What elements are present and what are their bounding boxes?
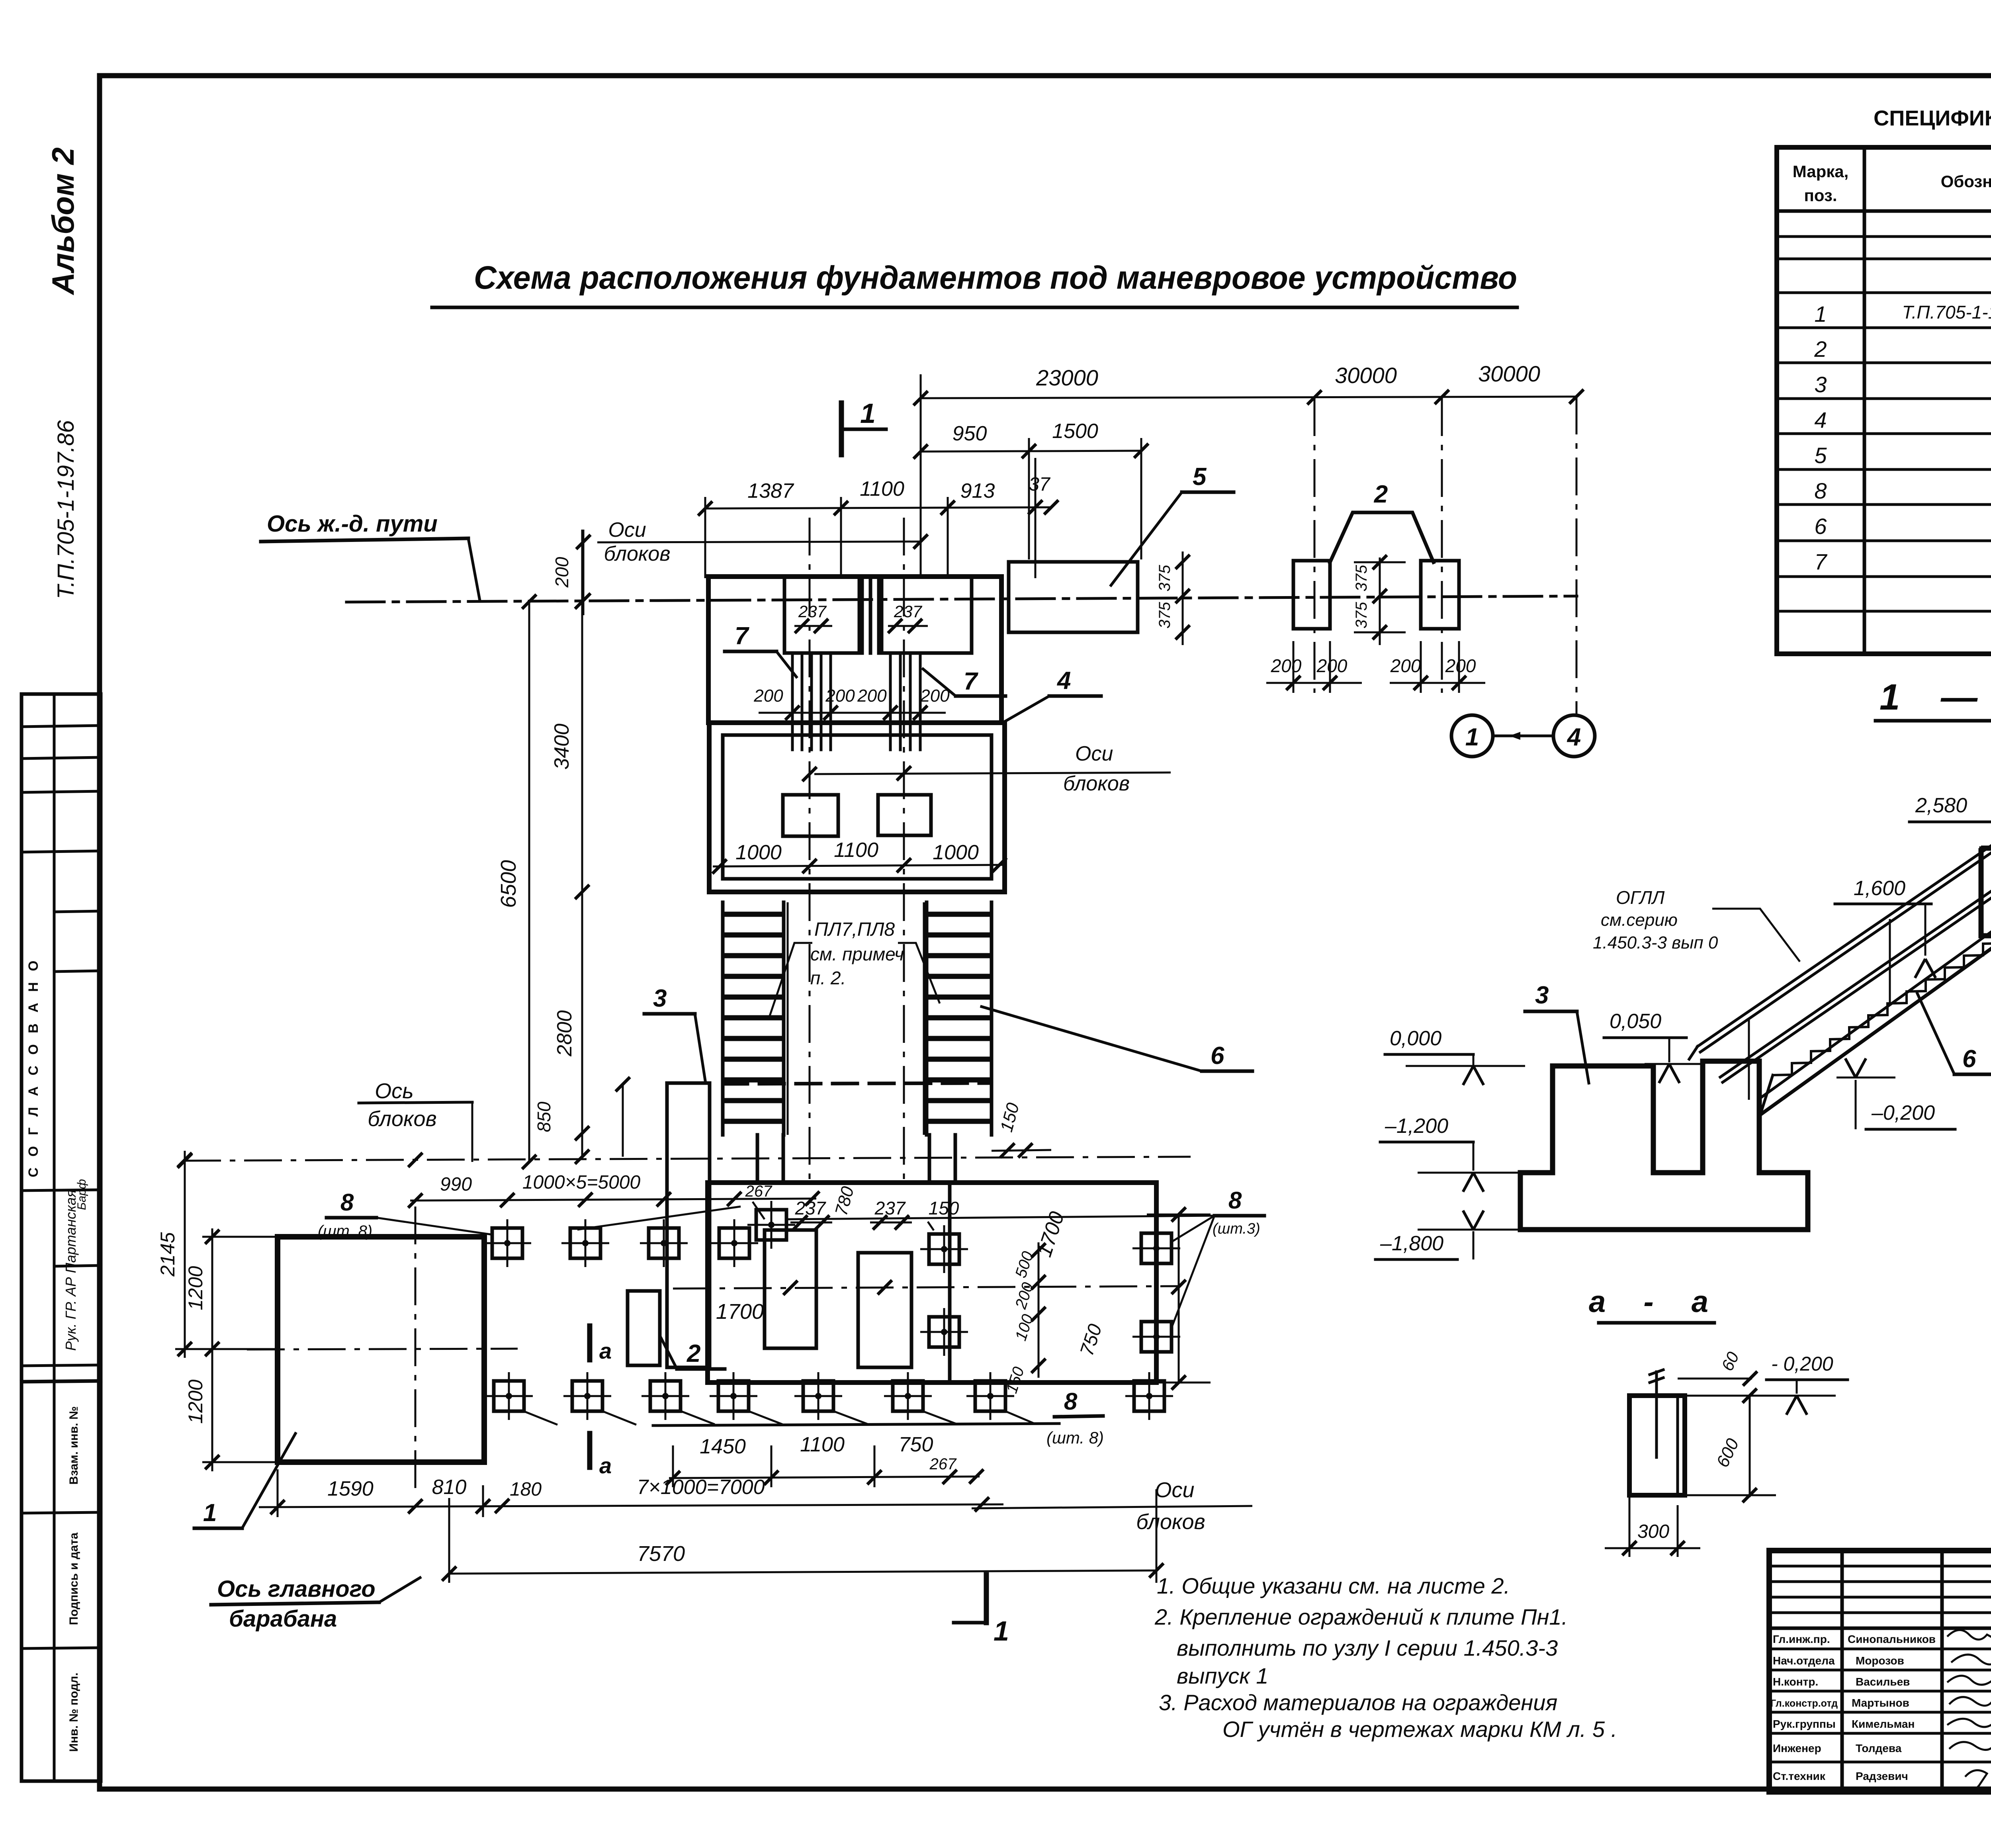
section foundation pos4 profile	[1981, 848, 1991, 978]
label 7 left	[725, 622, 796, 677]
pos1 axes	[247, 1207, 518, 1493]
stair railing	[1689, 846, 1991, 1100]
svg-text:375: 375	[1156, 565, 1173, 591]
svg-text:200: 200	[1271, 655, 1302, 676]
svg-text:Альбом 2: Альбом 2	[45, 147, 80, 295]
dims 1200 1200	[175, 1228, 279, 1471]
pos3 tall rectangle plan	[667, 1083, 710, 1367]
svg-text:–1,800: –1,800	[1380, 1232, 1443, 1255]
level 0.000	[1385, 1027, 1525, 1085]
svg-text:200: 200	[1316, 655, 1348, 676]
svg-text:300: 300	[1637, 1521, 1669, 1542]
svg-text:Рук.группы: Рук.группы	[1773, 1718, 1836, 1730]
svg-text:990: 990	[440, 1174, 472, 1195]
dims 200 under channels	[753, 686, 950, 720]
svg-text:0,000: 0,000	[1390, 1027, 1441, 1050]
svg-text:7570: 7570	[637, 1542, 685, 1566]
dim row 1387 1100 913 37	[698, 458, 1058, 578]
level -1.200	[1380, 1115, 1518, 1192]
svg-text:3400: 3400	[550, 724, 573, 770]
upper block notch 1	[784, 577, 859, 653]
svg-text:3: 3	[653, 985, 667, 1012]
label 1	[194, 1433, 295, 1528]
svg-text:0,050: 0,050	[1610, 1010, 1661, 1033]
blocks axes label bottom right	[972, 1478, 1252, 1534]
level 0.050	[1604, 1010, 1704, 1083]
svg-text:Гл.констр.отд: Гл.констр.отд	[1770, 1698, 1838, 1709]
svg-text:см. примеч: см. примеч	[810, 944, 904, 964]
left margin attachment table	[22, 694, 101, 1781]
vertical block axes dashdot	[810, 518, 904, 1183]
main title	[432, 260, 1517, 307]
section a-a dim 60	[1678, 1349, 1757, 1386]
svg-text:23000: 23000	[1036, 365, 1098, 390]
specification table heading	[1874, 106, 1991, 130]
svg-text:750: 750	[899, 1433, 933, 1456]
upper block notch 2	[882, 577, 972, 653]
svg-text:3: 3	[1535, 982, 1549, 1009]
middle block inner rect	[723, 735, 992, 879]
blocks axes label upper	[597, 518, 928, 565]
svg-text:4: 4	[1056, 667, 1071, 694]
svg-text:Васильев: Васильев	[1856, 1676, 1910, 1688]
pit dashed line	[723, 1083, 992, 1084]
interior axis horizontal	[673, 1280, 1179, 1324]
svg-text:200: 200	[1390, 655, 1421, 676]
svg-text:Т.П.705-1-197.86лист 29: Т.П.705-1-197.86лист 29	[1902, 302, 1991, 323]
label 5	[1111, 463, 1234, 585]
dim 237 237 780 lower	[790, 1184, 912, 1230]
svg-text:200: 200	[753, 686, 783, 706]
upper block middle strips	[862, 577, 879, 653]
svg-text:Рук. ГР. АР Партанская: Рук. ГР. АР Партанская	[63, 1190, 79, 1351]
svg-text:7: 7	[1814, 549, 1827, 574]
svg-text:3: 3	[1814, 372, 1827, 397]
svg-text:1387: 1387	[747, 479, 794, 503]
svg-text:1000: 1000	[933, 841, 979, 864]
svg-text:Т.П.705-1-197.86: Т.П.705-1-197.86	[53, 420, 79, 599]
blocks axes label lower left	[359, 1079, 472, 1162]
notes	[1154, 1573, 1617, 1742]
big interior rect B	[858, 1253, 911, 1367]
svg-text:2: 2	[686, 1340, 700, 1367]
svg-text:Морозов: Морозов	[1856, 1654, 1904, 1667]
dim 375 375 at pos2	[1353, 555, 1406, 645]
svg-text:С О Г Л А С О В А Н О: С О Г Л А С О В А Н О	[26, 957, 41, 1177]
svg-text:5: 5	[1814, 443, 1827, 468]
svg-text:267: 267	[745, 1183, 773, 1200]
svg-text:Оси: Оси	[608, 518, 646, 542]
svg-text:–0,200: –0,200	[1871, 1101, 1935, 1124]
svg-text:ПЛ7,ПЛ8: ПЛ7,ПЛ8	[814, 919, 895, 940]
level -0.200 section	[1836, 1058, 1955, 1129]
svg-text:а: а	[599, 1453, 612, 1478]
railway axis line	[346, 596, 1577, 602]
svg-text:1: 1	[994, 1615, 1009, 1647]
pos2 left rectangle	[1293, 561, 1330, 629]
vertical axes dashdot right group	[1314, 397, 1576, 715]
svg-text:1700: 1700	[716, 1300, 764, 1324]
specification table grid	[1777, 147, 1991, 654]
svg-text:а: а	[599, 1338, 612, 1363]
svg-text:267: 267	[929, 1455, 957, 1473]
channels pos7 group B	[890, 653, 920, 750]
svg-text:1: 1	[1465, 724, 1479, 751]
lower main block outline	[708, 1183, 1156, 1383]
footings bottom row	[485, 1372, 1173, 1420]
top dim row 23000 30000 30000	[913, 361, 1584, 578]
svg-text:(шт. 8): (шт. 8)	[318, 1222, 372, 1240]
svg-text:выполнить по узлу I серии 1: выполнить по узлу I серии 1.450.3-3	[1177, 1635, 1558, 1660]
pos2 right rectangle	[1421, 561, 1459, 629]
svg-text:6: 6	[1211, 1042, 1224, 1070]
svg-text:7: 7	[735, 622, 749, 650]
dim 150 right of hatch	[992, 1101, 1051, 1158]
footing offset	[747, 1201, 795, 1249]
middle block hole left	[783, 795, 838, 836]
section a-a channel rect	[1629, 1396, 1685, 1495]
svg-text:Обозначение: Обозначение	[1941, 172, 1991, 191]
dim 237 upper right	[888, 602, 928, 633]
footings right edge pair	[1132, 1224, 1180, 1361]
title block frame	[1769, 1551, 1991, 1792]
svg-text:30000: 30000	[1478, 361, 1540, 386]
svg-text:1100: 1100	[834, 839, 878, 862]
svg-text:блоков: блоков	[1063, 772, 1130, 795]
svg-text:Оси: Оси	[1155, 1478, 1194, 1502]
svg-text:1200: 1200	[184, 1379, 207, 1424]
dim row 950 1500	[913, 420, 1148, 559]
datum circles 1 and 4	[1451, 715, 1595, 757]
right dim chain 100 200 500 150	[1003, 1242, 1046, 1396]
svg-text:СПЕЦИФИКАЦИЯ ЭЛЕМЕНТОВ К СХЕМЕ: СПЕЦИФИКАЦИЯ ЭЛЕМЕНТОВ К СХЕМЕ РАСПОЛОЖЕ…	[1874, 106, 1991, 130]
dim row 1450 1100 750 267	[666, 1433, 984, 1487]
section a-a dim 300	[1605, 1445, 1700, 1557]
left margin rotated captions	[26, 957, 88, 1752]
footings mid pair	[920, 1225, 968, 1356]
svg-text:ОГ учтён в чертежах ма: ОГ учтён в чертежах марки КМ л. 5 .	[1222, 1717, 1617, 1742]
svg-text:4: 4	[1814, 407, 1827, 432]
svg-text:237: 237	[798, 602, 827, 621]
svg-text:2,580: 2,580	[1915, 794, 1967, 817]
svg-text:Синопальников: Синопальников	[1848, 1633, 1936, 1645]
svg-text:1. Общие указани см. на ли: 1. Общие указани см. на листе 2.	[1157, 1573, 1510, 1598]
bottom dim row 1590 810 180 7x1000	[259, 1469, 1003, 1517]
svg-text:1: 1	[860, 398, 876, 429]
svg-text:Мартынов: Мартынов	[1852, 1697, 1909, 1709]
middle block hole right	[878, 795, 931, 835]
vertical caption Albom 2	[45, 147, 80, 295]
hatch strip feet	[757, 1135, 955, 1183]
svg-text:1,600: 1,600	[1854, 877, 1905, 900]
svg-text:8: 8	[1064, 1388, 1078, 1415]
label 6 section	[1917, 993, 1991, 1074]
svg-text:2: 2	[1374, 481, 1388, 508]
svg-text:ОГЛЛ: ОГЛЛ	[1616, 887, 1665, 908]
upper block pos4 plan outline	[708, 577, 1001, 723]
svg-text:2800: 2800	[553, 1010, 576, 1057]
svg-text:1: 1	[1814, 301, 1827, 327]
vertical caption T.P.705-1-197.86	[53, 420, 79, 599]
svg-text:см.серию: см.серию	[1601, 910, 1678, 930]
svg-text:п. 2.: п. 2.	[810, 968, 846, 988]
dim 2145	[156, 1151, 192, 1358]
stair pit hatched strip left	[723, 902, 784, 1135]
svg-text:Толдева: Толдева	[1856, 1742, 1902, 1754]
svg-text:Нач.отдела: Нач.отдела	[1773, 1654, 1835, 1667]
stair flight pos6	[1759, 925, 1991, 1118]
middle block pos4 lower plan outer	[709, 723, 1005, 892]
svg-text:8: 8	[1814, 478, 1827, 503]
dim 267	[577, 1183, 773, 1230]
svg-text:7: 7	[964, 668, 978, 695]
svg-text:1590: 1590	[327, 1477, 374, 1500]
svg-text:1100: 1100	[800, 1433, 845, 1456]
svg-text:2. Крепление ограждений к пл: 2. Крепление ограждений к плите Пн1.	[1154, 1604, 1568, 1629]
svg-text:150: 150	[929, 1198, 959, 1218]
svg-text:блоков: блоков	[368, 1107, 436, 1131]
dim 200 vertical top left	[552, 530, 591, 615]
section a-a level -0.200	[1685, 1353, 1848, 1415]
svg-text:- 0,200: - 0,200	[1771, 1353, 1833, 1375]
svg-text:Ст.техник: Ст.техник	[1773, 1770, 1826, 1782]
section a-a rebar	[1650, 1370, 1663, 1457]
svg-text:(шт.3): (шт.3)	[1213, 1220, 1260, 1237]
svg-text:барабана: барабана	[229, 1606, 337, 1632]
section 1-1 foundation pos3 profile	[1520, 1061, 1808, 1230]
stair pit inner edges	[788, 902, 924, 1135]
section a-a dim 600	[1685, 1388, 1776, 1502]
label 4 plan	[1003, 667, 1101, 723]
svg-text:1000×5=5000: 1000×5=5000	[522, 1172, 641, 1193]
label 8 sht3 right	[786, 1187, 1264, 1330]
foundation pos5 rectangle	[1009, 562, 1138, 632]
svg-text:выпуск 1: выпуск 1	[1177, 1663, 1268, 1688]
label 7 right	[923, 668, 1005, 696]
title block signature squiggles	[1947, 1630, 1991, 1790]
svg-text:6: 6	[1962, 1045, 1976, 1073]
svg-text:Взам. инв. №: Взам. инв. №	[67, 1406, 80, 1485]
svg-text:1100: 1100	[860, 477, 904, 501]
level 2.580	[1909, 794, 1991, 866]
svg-text:(шт. 8): (шт. 8)	[1046, 1428, 1104, 1447]
big interior rect A	[765, 1230, 816, 1348]
svg-text:3. Расход материалов на огр: 3. Расход материалов на ограждения	[1159, 1690, 1557, 1715]
svg-text:Ось главного: Ось главного	[217, 1576, 376, 1602]
blocks axes label middle right	[802, 742, 1171, 795]
svg-text:блоков: блоков	[604, 542, 671, 565]
svg-text:Оси: Оси	[1075, 742, 1113, 765]
svg-text:200: 200	[825, 686, 855, 706]
dim 150 lower	[928, 1198, 959, 1230]
svg-text:Ось ж.-д. пути: Ось ж.-д. пути	[267, 511, 438, 537]
svg-text:8: 8	[1228, 1187, 1242, 1214]
label 3 section	[1525, 982, 1589, 1083]
svg-text:237: 237	[894, 602, 923, 621]
specification table header texts	[1793, 158, 1991, 208]
dim 1.600	[1835, 877, 1936, 978]
svg-text:200: 200	[552, 557, 572, 588]
section a-a title	[1589, 1285, 1714, 1323]
svg-text:блоков: блоков	[1136, 1510, 1205, 1534]
svg-text:913: 913	[960, 479, 995, 503]
svg-text:8: 8	[340, 1189, 354, 1216]
level -1.800	[1375, 1210, 1518, 1259]
svg-text:Гл.инж.пр.: Гл.инж.пр.	[1773, 1633, 1830, 1645]
svg-text:1000: 1000	[735, 841, 782, 864]
svg-text:Ось: Ось	[375, 1079, 413, 1103]
svg-text:1200: 1200	[184, 1266, 207, 1310]
svg-text:375: 375	[1156, 602, 1173, 628]
section 1-1 title	[1876, 677, 1991, 721]
svg-text:237: 237	[874, 1198, 906, 1218]
svg-text:200: 200	[1445, 655, 1476, 676]
svg-text:2145: 2145	[156, 1232, 179, 1277]
svg-text:Марка,: Марка,	[1793, 162, 1849, 181]
svg-text:237: 237	[795, 1198, 826, 1218]
dim row 990 1000x5	[408, 1172, 819, 1208]
svg-text:Инженер: Инженер	[1773, 1742, 1821, 1754]
svg-text:375: 375	[1353, 602, 1370, 628]
right dim chain 1700 750	[1033, 1207, 1211, 1390]
svg-text:1450: 1450	[700, 1435, 746, 1458]
big square foundation pos1	[278, 1237, 484, 1462]
svg-text:850: 850	[534, 1101, 554, 1132]
specification rows designations	[1902, 302, 1991, 574]
svg-text:2: 2	[1814, 336, 1827, 362]
label 2 lower	[661, 1338, 725, 1369]
label 8 sht8 bottom	[522, 1388, 1104, 1447]
svg-text:810: 810	[432, 1476, 467, 1499]
section mark 1 bottom	[954, 1575, 1009, 1647]
handrail series note	[1593, 887, 1800, 962]
svg-text:5: 5	[1193, 463, 1207, 491]
label 6 hatch	[982, 1007, 1252, 1071]
footings top row	[483, 1219, 758, 1267]
dim 375 375 at pos5	[1156, 551, 1190, 645]
svg-text:6: 6	[1814, 514, 1827, 539]
pos2 rectangle lower	[628, 1291, 660, 1365]
channels pos7 group A	[792, 653, 831, 750]
title block signatures text	[1770, 1633, 1936, 1782]
dim row 1000 1100 1000	[712, 839, 1007, 874]
title block signature grid	[1769, 1551, 1991, 1792]
svg-text:Подпись и дата: Подпись и дата	[67, 1532, 80, 1625]
stair pit hatched strip right	[927, 902, 992, 1135]
main drum axis label	[211, 1576, 420, 1632]
svg-text:1: 1	[203, 1499, 217, 1527]
railway axis label	[261, 511, 480, 600]
svg-text:Кимельман: Кимельман	[1852, 1718, 1915, 1730]
svg-text:поз.: поз.	[1804, 186, 1837, 205]
pos2 group trapezoid	[1330, 481, 1434, 562]
svg-text:200: 200	[857, 686, 887, 706]
svg-text:30000: 30000	[1335, 363, 1397, 388]
section marks a	[590, 1326, 612, 1478]
blocks axis horizontal lower	[178, 1153, 1191, 1168]
dim 237 upper left	[794, 602, 832, 633]
svg-text:37: 37	[1029, 474, 1051, 495]
svg-text:1.450.3-3 вып 0: 1.450.3-3 вып 0	[1593, 933, 1718, 952]
svg-text:7×1000=7000: 7×1000=7000	[637, 1476, 765, 1499]
label 3 plan	[644, 985, 706, 1083]
svg-text:Схема расположения фундаментов: Схема расположения фундаментов под манев…	[474, 260, 1517, 296]
bottom dim 7570	[442, 1489, 1164, 1583]
svg-text:Радзевич: Радзевич	[1856, 1770, 1908, 1782]
svg-text:180: 180	[510, 1479, 542, 1500]
dims 200 under pos2	[1266, 641, 1485, 693]
svg-text:Инв. № подл.: Инв. № подл.	[67, 1672, 80, 1752]
left dim chain 6500	[497, 594, 536, 1169]
svg-text:6500: 6500	[497, 860, 520, 908]
specification rows position numbers	[1814, 301, 1827, 574]
plate label PL7 PL8	[769, 919, 940, 1019]
svg-text:Н.контр.: Н.контр.	[1773, 1676, 1818, 1688]
svg-text:Барф: Барф	[75, 1179, 88, 1210]
svg-text:–1,200: –1,200	[1385, 1115, 1448, 1138]
left dim chain 3400 2800 850	[534, 530, 630, 1164]
svg-text:1500: 1500	[1052, 420, 1098, 443]
svg-text:4: 4	[1567, 724, 1581, 751]
section mark 1 top	[841, 398, 886, 455]
label 8 sht8 top	[318, 1189, 491, 1240]
svg-text:375: 375	[1353, 565, 1370, 591]
svg-text:950: 950	[952, 422, 987, 445]
